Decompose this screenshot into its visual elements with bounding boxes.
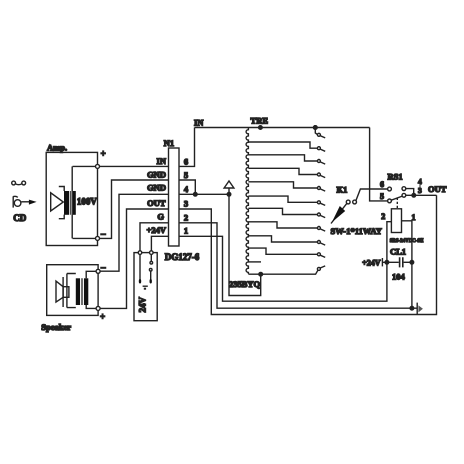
- wire pin6 to IN top line: [179, 128, 195, 167]
- arrow CD to Amp: [21, 200, 36, 205]
- transformer T1 winding bracket top: [59, 187, 64, 192]
- wire battery right lead lower: [150, 271, 152, 279]
- connector N1 body: [169, 148, 180, 246]
- wire battery right lead upper: [150, 254, 152, 261]
- wire cap left: [382, 261, 398, 263]
- relay RS1 pin5 contact: [388, 199, 392, 203]
- wiper arrowhead: [332, 206, 345, 222]
- svg-text:SRS-24VDC-SII: SRS-24VDC-SII: [390, 239, 424, 244]
- tap to contact 8: [248, 222, 317, 228]
- svg-text:5: 5: [380, 192, 384, 201]
- svg-text:K1: K1: [337, 185, 348, 195]
- tap to contact 3: [248, 155, 317, 161]
- dashed link wiper to coil: [396, 198, 398, 209]
- Amp box: [46, 152, 97, 245]
- node battery left terminal: [138, 251, 142, 255]
- relay wiper to pin3: [391, 196, 402, 200]
- tap to contact 7: [248, 208, 317, 214]
- switch K1 wiper contacts: [346, 200, 350, 204]
- tap to contact 2: [248, 142, 317, 148]
- node contact1 junction: [314, 126, 318, 130]
- CD jack symbol: [12, 181, 26, 185]
- plug tip left: [139, 279, 141, 284]
- node cap left junction: [385, 261, 389, 265]
- svg-text:100V: 100V: [77, 196, 98, 206]
- wire relay pin3 to OUT: [406, 194, 437, 196]
- node speaker minus terminal: [96, 269, 100, 273]
- wire battery left lead: [139, 254, 141, 279]
- svg-text:104: 104: [392, 271, 406, 281]
- switch in battery lead: [150, 261, 153, 264]
- tap to contact 6: [248, 196, 317, 202]
- wire amp plus to N1 pin6: [73, 165, 169, 167]
- svg-text:6: 6: [380, 180, 384, 189]
- transformer T2 core lines: [81, 278, 82, 305]
- node coil bottom junction: [259, 272, 263, 276]
- svg-text:5: 5: [184, 170, 188, 180]
- svg-text:G: G: [157, 211, 164, 221]
- ground symbol: [412, 303, 417, 315]
- transformer T2 secondary bar: [84, 278, 88, 305]
- svg-text:TRE: TRE: [251, 116, 269, 126]
- node cap right junction: [410, 261, 414, 265]
- svg-text:3: 3: [418, 186, 422, 195]
- tap to contact 9: [248, 236, 317, 242]
- switch contact 8: [317, 227, 320, 230]
- switch contact 6: [317, 201, 320, 204]
- tap to contact 4: [248, 168, 317, 174]
- transformer T1 primary bar: [64, 191, 69, 215]
- switch contact 2: [317, 147, 320, 150]
- wire amp minus to N1 pin5: [73, 180, 169, 238]
- switch contact 11: [317, 267, 320, 270]
- relay pin3 contact: [402, 193, 406, 197]
- tap to contact 10: [248, 248, 317, 254]
- node battery right terminal: [150, 251, 154, 255]
- node IN line right junction: [314, 126, 318, 130]
- Speaker box: [47, 265, 98, 316]
- svg-text:Speaker: Speaker: [41, 322, 71, 332]
- speaker LS1 frame line: [62, 277, 64, 307]
- speaker LS1 driver: [63, 287, 69, 298]
- capacitor CL1: [400, 257, 403, 267]
- svg-text:SW-1*11WAY: SW-1*11WAY: [331, 226, 382, 236]
- switch contact 1: [317, 133, 320, 136]
- wire IN line down to relay pin5: [370, 128, 388, 201]
- wire coil bottom line: [248, 270, 318, 274]
- relay pin4 contact: [402, 187, 406, 191]
- svg-text:IN: IN: [194, 118, 204, 128]
- transformer T2 right rails: [86, 271, 98, 308]
- svg-text:235BYQ: 235BYQ: [229, 279, 261, 289]
- svg-text:+: +: [100, 312, 105, 322]
- node amp minus terminal: [96, 236, 100, 240]
- svg-text:OUT: OUT: [147, 198, 166, 208]
- svg-text:DG127-6: DG127-6: [165, 252, 200, 262]
- +24V terminal tick: [381, 258, 383, 266]
- svg-text:IN: IN: [157, 156, 167, 166]
- svg-text:1: 1: [184, 226, 188, 236]
- wire pin5 jog to pin4: [179, 180, 195, 194]
- CD plug symbol: [13, 196, 21, 207]
- wire pin3 right to OUT loop: [179, 195, 437, 314]
- svg-text:+24V: +24V: [147, 225, 167, 235]
- speaker LS1 cone: [56, 281, 63, 302]
- node TRE junction: [259, 126, 263, 130]
- node pin5-pin4 junction: [194, 193, 198, 197]
- svg-text:+24V: +24V: [362, 258, 381, 267]
- node amp plus terminal: [96, 164, 100, 168]
- svg-text:2: 2: [184, 212, 188, 222]
- plug tip right: [150, 279, 152, 284]
- transformer T2 left rails: [67, 274, 76, 308]
- wire pin1 right to +24V row: [179, 222, 391, 302]
- svg-text:CD: CD: [13, 213, 26, 223]
- transformer T1 secondary wire: [71, 166, 73, 238]
- wire IN top line: [195, 127, 370, 129]
- svg-text:4: 4: [184, 184, 189, 194]
- coil stub tap: [248, 261, 261, 263]
- svg-text:Amp.: Amp.: [47, 143, 67, 153]
- svg-text:+: +: [101, 148, 106, 158]
- battery cell symbol: [143, 285, 148, 287]
- svg-text:2: 2: [381, 212, 385, 221]
- switch contact 4: [317, 173, 320, 176]
- switch contact 9: [317, 241, 320, 244]
- inductor TRE coil: [246, 128, 248, 274]
- transformer T2 primary bar: [76, 278, 80, 305]
- node ground junction: [410, 306, 414, 310]
- wire pin1 left to battery: [151, 236, 168, 251]
- wire pin2 right to ground row: [179, 223, 412, 308]
- relay RS1 pin6 contact: [388, 187, 392, 191]
- wire coil pin1 down: [402, 221, 412, 308]
- op-amp triangle U1: [51, 193, 64, 211]
- svg-text:24V: 24V: [138, 297, 148, 313]
- transformer T1 winding bracket bottom: [59, 215, 64, 219]
- transformer T1 core lines: [70, 191, 72, 215]
- wiper arm line: [331, 203, 347, 223]
- svg-text:OUT: OUT: [428, 184, 447, 194]
- transformer T1 secondary bar: [73, 191, 76, 215]
- wire cap right: [404, 261, 412, 263]
- switch contact 1 feed: [315, 128, 317, 135]
- svg-text:CL1: CL1: [390, 247, 406, 257]
- wire pin4 down to coil bottom: [229, 194, 261, 295]
- speaker LS1 inner line: [66, 274, 68, 308]
- tap to contact 5: [248, 182, 317, 188]
- wire pin2 left to battery: [140, 223, 169, 251]
- node out junction: [412, 194, 416, 198]
- svg-text:GND: GND: [147, 183, 166, 193]
- svg-text:–: –: [100, 229, 106, 239]
- svg-text:N1: N1: [164, 138, 174, 148]
- svg-text:6: 6: [184, 156, 188, 166]
- antenna triangle symbol: [224, 181, 234, 194]
- svg-text:4: 4: [418, 177, 422, 186]
- node speaker plus terminal: [96, 306, 100, 310]
- svg-text:3: 3: [184, 199, 188, 209]
- wire pin4 to out line: [406, 189, 414, 196]
- pin 4-3 tick: [419, 185, 421, 188]
- battery box 24V: [134, 253, 157, 321]
- wire K1 to relay pin6: [356, 189, 388, 201]
- switch contact 10: [317, 253, 320, 256]
- switch contact 3: [317, 160, 320, 163]
- wire pin3 left to speaker plus: [100, 209, 168, 308]
- svg-text:RS1: RS1: [388, 172, 403, 182]
- switch contact 7: [317, 213, 320, 216]
- relay coil box: [391, 209, 401, 233]
- wire pin4 GND row: [179, 193, 229, 195]
- wire pin4 left to speaker minus: [100, 194, 168, 271]
- node pin4 triangle junction: [227, 193, 231, 197]
- svg-text:GND: GND: [147, 169, 166, 179]
- switch contact 5: [317, 187, 320, 190]
